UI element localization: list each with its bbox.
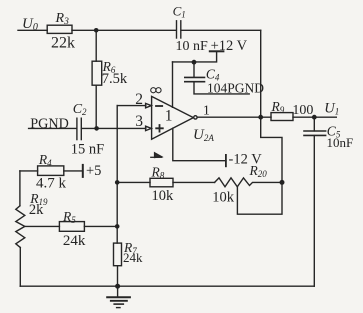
svg-text:10nF: 10nF (327, 135, 354, 150)
svg-text:1: 1 (203, 104, 210, 119)
svg-text:104PGND: 104PGND (207, 81, 264, 96)
svg-text:24k: 24k (63, 233, 86, 249)
svg-text:10 nF: 10 nF (176, 39, 209, 54)
svg-text:10k: 10k (212, 190, 235, 206)
svg-text:1: 1 (165, 108, 173, 125)
svg-text:+5: +5 (86, 163, 101, 179)
svg-text:2k: 2k (29, 202, 44, 218)
svg-text:+12 V: +12 V (211, 38, 248, 54)
svg-text:24k: 24k (123, 250, 143, 265)
svg-text:4.7 k: 4.7 k (36, 176, 67, 192)
svg-text:PGND: PGND (30, 116, 69, 132)
svg-text:22k: 22k (51, 35, 75, 52)
svg-text:7.5k: 7.5k (102, 71, 128, 87)
svg-text:3: 3 (135, 113, 143, 130)
svg-text:2: 2 (135, 91, 143, 108)
svg-text:15 nF: 15 nF (71, 142, 104, 158)
svg-text:100: 100 (292, 103, 313, 118)
svg-text:10k: 10k (152, 188, 175, 204)
